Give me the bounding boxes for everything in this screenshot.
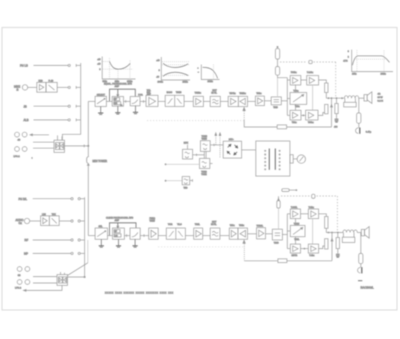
wire — [203, 235, 211, 237]
wire rectifier to transformer — [242, 149, 256, 151]
svg-text:EQUAL. PHONO/CORR. NFB: EQUAL. PHONO/CORR. NFB — [104, 82, 132, 85]
tape reels top pair 2 — [14, 147, 28, 158]
driver amp box top — [255, 93, 264, 106]
svg-text:PH LB: PH LB — [20, 64, 28, 68]
svg-text:F-4B: F-4B — [49, 81, 54, 83]
MIDI connector — [87, 157, 108, 166]
input PH B/L bottom — [19, 197, 85, 201]
svg-text:TREB: TREB — [202, 138, 208, 140]
driver amp box bottom — [257, 225, 266, 239]
wire antenna 2 — [165, 180, 182, 181]
svg-text:K2B: K2B — [39, 81, 44, 83]
mic limiter box bottom — [49, 213, 84, 226]
wire — [325, 93, 327, 99]
title phono corr top — [104, 82, 132, 88]
tape amp box bottom — [229, 224, 238, 239]
tuner box lower — [200, 158, 210, 176]
svg-text:0: 0 — [159, 70, 160, 72]
wire — [325, 228, 327, 232]
svg-text:MBTR: MBTR — [292, 255, 298, 257]
connector bus bottom — [84, 197, 86, 277]
boundary dashed vertical top — [335, 62, 337, 97]
svg-text:0: 0 — [99, 69, 100, 71]
electrolytic cap top — [356, 128, 360, 134]
svg-text:100Hz: 100Hz — [158, 82, 164, 84]
wire to R1 top — [319, 80, 327, 83]
wire — [124, 234, 130, 237]
svg-text:AMP: AMP — [115, 85, 120, 88]
svg-text:4.7%: 4.7% — [343, 60, 348, 62]
ground eq box bottom — [133, 239, 138, 247]
feedback branch top — [331, 98, 333, 127]
tape reels top pair 1 — [15, 132, 27, 141]
wire — [281, 100, 287, 102]
output cap branch bottom — [359, 233, 363, 268]
input ALB top — [24, 118, 81, 122]
input PH top — [20, 64, 81, 68]
inductor L1 bottom — [343, 230, 357, 233]
mains fuse bottom — [282, 189, 297, 192]
link tuner boxes — [204, 151, 206, 158]
wire — [158, 100, 165, 102]
tone control box bottom — [166, 224, 185, 239]
wire antenna 1 — [165, 164, 200, 165]
phono corr bus bottom — [110, 223, 137, 236]
svg-text:YILS: YILS — [177, 224, 182, 226]
damping resistor top — [344, 98, 357, 107]
svg-text:TRBx: TRBx — [256, 93, 261, 95]
wire to R2 top — [318, 113, 325, 116]
svg-text:SELECT: SELECT — [97, 94, 106, 96]
ground selector top — [98, 107, 103, 115]
output node line top — [326, 98, 344, 99]
tube fuse 1 top — [275, 46, 279, 66]
ground nr box top — [115, 106, 120, 114]
boundary dashed vertical bottom — [336, 196, 338, 231]
graph RIAA x labels — [103, 81, 133, 83]
svg-text:LIM: LIM — [115, 236, 118, 238]
phono corr bus top — [110, 89, 136, 101]
svg-text:RACING/L: RACING/L — [361, 285, 375, 289]
ground selector bottom — [99, 239, 104, 247]
svg-text:TREB: TREB — [150, 221, 156, 223]
tape out wire top — [65, 145, 90, 148]
graph lowpass curve — [203, 67, 218, 78]
tube fuse bottom — [277, 196, 280, 229]
wire mpx to tuner — [193, 154, 205, 156]
wire — [140, 100, 146, 103]
mic limiter box top — [46, 81, 81, 93]
graph tone axes — [161, 57, 190, 80]
svg-text:TBD: TBD — [184, 188, 189, 190]
wire to R2 bottom — [319, 246, 325, 249]
mute control dashed top — [147, 120, 244, 122]
eq box top — [130, 94, 143, 106]
graph lowpass dashed — [213, 65, 215, 80]
resistor R2 top — [325, 104, 328, 113]
graph tone dashed — [162, 62, 189, 76]
wire — [158, 235, 166, 237]
transformer stub box — [290, 155, 297, 163]
svg-text:T-8Bx: T-8Bx — [309, 207, 314, 209]
svg-text:0.2 %: 0.2 % — [378, 101, 384, 103]
connector bus top — [62, 63, 80, 140]
graph tone curves — [163, 63, 188, 67]
svg-text:24V=: 24V= — [229, 139, 235, 141]
output amp U3 top — [290, 110, 301, 124]
selector box bottom — [95, 226, 107, 239]
speaker top — [364, 92, 372, 104]
output amp U1 top — [290, 72, 301, 85]
tape head box bottom — [57, 272, 68, 285]
mic input top — [14, 85, 37, 92]
svg-text:20kHz: 20kHz — [381, 74, 386, 76]
svg-text:2: 2 — [348, 56, 349, 58]
svg-text:TAPx: TAPx — [230, 224, 235, 227]
output cap branch top — [357, 98, 361, 128]
secondary winding — [279, 150, 280, 170]
eq box bottom — [130, 228, 140, 239]
wire — [184, 100, 193, 102]
svg-text:10kHz: 10kHz — [183, 82, 188, 84]
resistor R2 bottom — [325, 239, 328, 249]
wire — [266, 233, 273, 235]
input MP bottom — [24, 252, 85, 256]
splitter box top — [271, 97, 281, 109]
output amp U2 bottom — [308, 207, 318, 219]
svg-text:‹: ‹ — [32, 156, 33, 160]
svg-text:BASS: BASS — [167, 91, 173, 94]
svg-text:TAPEx: TAPEx — [229, 92, 235, 95]
svg-text:F-PA: F-PA — [138, 94, 143, 97]
noise reduction box bottom — [113, 228, 125, 239]
wire to R1 bottom — [319, 214, 327, 217]
MPX decoder box — [183, 143, 193, 159]
graph bandwidth axes — [352, 50, 393, 72]
bridge rectifier box — [223, 139, 241, 158]
svg-text:T10B: T10B — [274, 242, 279, 244]
output amp U3 bottom — [290, 244, 300, 257]
speaker bottom — [361, 227, 369, 239]
resistor R3 bottom — [336, 233, 339, 254]
stub tuner lower — [210, 163, 213, 165]
mic input bottom — [16, 218, 41, 225]
graph bandwidth curve — [352, 56, 389, 65]
wire — [220, 235, 229, 237]
capacitor C1 bottom — [336, 254, 340, 257]
ground eq box top — [133, 106, 138, 114]
svg-text:TURBL: TURBL — [257, 225, 264, 227]
svg-text:xxxxx xxxx xxxxxx xxxxx xxxxxx: xxxxx xxxx xxxxxx xxxxx xxxxxxx xxxx xxx — [105, 292, 174, 295]
svg-text:HI FIL: HI FIL — [211, 224, 217, 226]
svg-text:JB: JB — [24, 104, 27, 108]
heater dashed line bottom — [281, 195, 337, 197]
minus mark bottom — [358, 280, 362, 282]
svg-text:TUBE: TUBE — [201, 174, 207, 176]
feedback arrow into loudness bottom — [243, 240, 278, 260]
svg-text:LPS-2: LPS-2 — [14, 156, 21, 158]
resistor R1 top — [325, 83, 328, 93]
lamp symbol top — [309, 60, 313, 63]
selector box top — [95, 94, 106, 106]
output amp U4 bottom — [308, 244, 318, 257]
svg-text:T60bx: T60bx — [308, 122, 314, 124]
wire — [248, 100, 256, 102]
mute control dashed bottom — [158, 246, 244, 248]
wire tuner to rectifier — [210, 144, 223, 146]
ground nr box bottom — [116, 239, 121, 247]
feedback resistor bottom — [278, 259, 332, 263]
heater dashed line top — [280, 61, 336, 63]
tone amp box bottom — [194, 224, 203, 239]
svg-text:T-80x: T-80x — [293, 91, 298, 93]
svg-text:T-80BL: T-80BL — [291, 207, 298, 209]
splitter box bottom — [272, 229, 282, 244]
power transformer — [256, 141, 290, 176]
feedback arrow into loudness top — [243, 108, 277, 127]
resistor R3 top — [335, 98, 338, 118]
interstage wires bottom — [296, 219, 313, 245]
svg-text:→: → — [197, 72, 199, 74]
wire to selector top — [88, 100, 95, 102]
bridge diodes — [227, 144, 237, 154]
wire — [220, 100, 228, 102]
svg-text:TREx: TREx — [239, 225, 244, 227]
resistor R1 bottom — [325, 217, 328, 229]
wire — [282, 234, 287, 236]
svg-text:LIM: LIM — [42, 214, 46, 216]
svg-text:TRIB: TRIB — [273, 107, 278, 109]
tone amp box top — [193, 93, 203, 107]
graph lowpass axes — [201, 65, 219, 80]
svg-text:MPX: MPX — [184, 143, 189, 145]
lamp symbol bottom — [312, 194, 315, 198]
damping resistor bottom — [342, 233, 355, 243]
svg-text:TREL: TREL — [294, 239, 300, 241]
inductor L1 top — [344, 96, 358, 99]
tape record wires top — [33, 141, 54, 143]
loudness box bottom — [238, 225, 248, 239]
svg-text:TOEN: TOEN — [294, 223, 300, 225]
tape reels bottom pair 2 — [15, 280, 30, 290]
interstage wires top — [296, 85, 313, 110]
tape return arrow bottom — [23, 285, 62, 291]
wire — [124, 100, 131, 103]
volume amp box bottom — [149, 218, 159, 239]
mic amp box top — [37, 81, 46, 93]
meter M1 — [297, 155, 305, 163]
svg-text:LPB-2: LPB-2 — [15, 288, 22, 290]
loudness box top — [238, 93, 247, 106]
noise reduction box top — [112, 97, 123, 108]
mains arrows — [215, 133, 221, 158]
graph RIAA ticks — [97, 59, 100, 71]
wire to selector bottom — [88, 235, 95, 237]
mute filter box top — [210, 90, 220, 106]
wire — [203, 100, 210, 102]
tube fuse 2 top — [275, 67, 287, 97]
main bus wire lower — [87, 165, 89, 235]
input RF bottom — [25, 238, 85, 242]
volume amp box top — [146, 90, 158, 107]
wire — [301, 115, 306, 116]
aux box — [182, 177, 192, 190]
svg-text:700Bx: 700Bx — [291, 72, 297, 74]
tape reels bottom pair 1 — [17, 267, 30, 277]
wire — [106, 100, 112, 102]
output amp U2 top — [307, 72, 319, 85]
wire — [357, 232, 361, 234]
svg-text:MP: MP — [24, 252, 28, 256]
wire — [108, 235, 113, 237]
svg-text:0.47µ: 0.47µ — [366, 131, 372, 133]
svg-text:RF: RF — [25, 238, 29, 242]
svg-text:TREB: TREB — [176, 92, 182, 94]
wire — [264, 100, 271, 102]
phase shift box top — [290, 91, 307, 109]
tape amp box top — [228, 92, 238, 106]
output amp U1 bottom — [290, 207, 300, 219]
mute filter box bottom — [210, 222, 220, 240]
electrolytic cap bottom — [358, 267, 362, 273]
svg-text:-10: -10 — [156, 77, 159, 79]
svg-text:+20: +20 — [97, 59, 100, 61]
svg-text:TREBx: TREBx — [195, 93, 201, 95]
svg-text:TREBx: TREBx — [239, 93, 245, 95]
svg-text:T-10x: T-10x — [309, 255, 314, 257]
wire — [359, 97, 364, 99]
phase shift box bottom — [290, 223, 305, 241]
tone control box top — [165, 91, 184, 107]
svg-text:MIDI TOWER: MIDI TOWER — [93, 160, 108, 163]
tape head box top — [54, 135, 65, 152]
svg-text:+10: +10 — [97, 63, 100, 65]
title phono corr bottom — [106, 216, 134, 222]
svg-text:TB1x: TB1x — [292, 122, 297, 124]
wire — [248, 233, 257, 235]
graph RIAA dashed — [103, 58, 133, 79]
feedback branch bottom — [331, 233, 333, 261]
svg-text:20Hz: 20Hz — [352, 74, 356, 76]
wire — [301, 213, 309, 215]
svg-text:CLEAN PHONO/CORR. NFB: CLEAN PHONO/CORR. NFB — [106, 216, 134, 219]
wire — [301, 248, 309, 249]
output amp U4 top — [306, 110, 318, 124]
svg-text:YOR: YOR — [168, 224, 173, 226]
feedback resistor top — [277, 125, 331, 129]
tape out wire bottom — [68, 276, 86, 277]
svg-text:PH B/L: PH B/L — [19, 197, 28, 201]
input JB top — [24, 104, 81, 108]
svg-text:0: 0 — [348, 51, 349, 53]
wire — [140, 234, 149, 237]
svg-text:LIM: LIM — [114, 103, 117, 105]
svg-text:AMP: AMP — [115, 219, 120, 222]
svg-text:7-140x: 7-140x — [307, 72, 313, 74]
svg-text:TAX: TAX — [52, 213, 57, 216]
svg-text:TREL: TREL — [195, 224, 201, 226]
main bus wire left — [87, 101, 89, 156]
speaker labels top — [378, 94, 384, 103]
output node line bottom — [326, 232, 343, 233]
supply rail vertical bottom — [287, 214, 290, 249]
wire — [301, 79, 307, 81]
svg-text:Ω: Ω — [17, 89, 19, 92]
supply rail vertical top — [287, 78, 290, 116]
tape playback wire top — [30, 134, 49, 136]
wire — [185, 235, 193, 237]
tuner box upper — [200, 136, 210, 152]
svg-text:ALB: ALB — [24, 118, 29, 122]
graph RIAA curve — [110, 62, 131, 70]
svg-text:+10: +10 — [156, 60, 159, 62]
svg-text:HI FIL: HI FIL — [211, 93, 217, 95]
graph RIAA axes — [102, 57, 135, 80]
tape record wires bottom — [33, 276, 57, 278]
capacitor C1 top — [335, 119, 339, 122]
graph bandwidth dashed — [354, 50, 386, 72]
mic amp box bottom — [41, 214, 50, 226]
svg-text:10kHz: 10kHz — [208, 81, 213, 83]
primary winding — [265, 150, 266, 170]
tape bus link bottom — [68, 240, 88, 275]
svg-text:4Ω: 4Ω — [378, 94, 381, 96]
